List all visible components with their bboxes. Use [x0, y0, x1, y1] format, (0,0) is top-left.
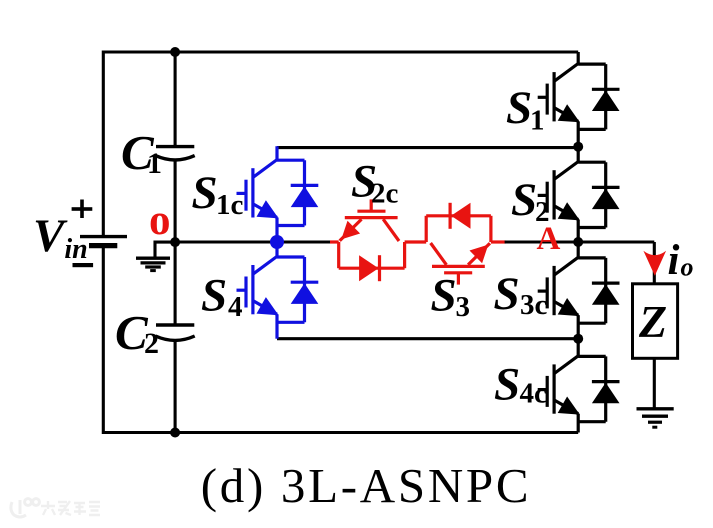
transistor S4c — [538, 356, 580, 415]
transistor S1 top connection wire — [577, 52, 580, 64]
svg-text:i: i — [668, 237, 680, 284]
transistor S2 antiparallel diode — [578, 162, 619, 227]
transistor S3 — [431, 243, 490, 285]
wire: Z to ground — [653, 358, 656, 409]
wire: clamp bottom rail (S4 to S3c-S4c junction) — [277, 337, 578, 340]
svg-text:S: S — [192, 167, 218, 219]
transistor S2c — [340, 199, 399, 241]
wire: C1 branch upper — [174, 52, 177, 147]
transistor S2 bottom connection wire — [577, 220, 580, 243]
svg-text:1: 1 — [147, 147, 162, 180]
wire: S2c to S3 — [405, 240, 427, 243]
wire: C2 to bottom rail — [174, 340, 177, 432]
svg-text:o: o — [149, 197, 171, 244]
svg-text:o: o — [681, 253, 694, 282]
S3 antiparallel diode — [426, 203, 491, 242]
svg-text:S: S — [511, 174, 537, 226]
svg-text:S: S — [494, 359, 520, 411]
svg-text:4: 4 — [228, 291, 243, 323]
svg-text:S: S — [431, 270, 457, 322]
wire: clamp top rail (S1c to S1-S2 junction) — [277, 146, 578, 149]
wire: node o to C2 — [174, 242, 177, 325]
transistor S1c antiparallel diode — [277, 160, 318, 225]
svg-text:1c: 1c — [216, 189, 244, 221]
battery Vin positive plate — [80, 235, 127, 238]
watermark logo — [11, 499, 40, 517]
node: S1-S2 junction — [573, 142, 583, 152]
transistor S4c top connection wire — [577, 339, 580, 357]
transistor S1 — [538, 64, 580, 123]
transistor S4 bottom connection wire — [275, 314, 278, 338]
svg-text:A: A — [537, 221, 561, 257]
transistor S4 antiparallel diode — [277, 257, 318, 322]
transistor S4c bottom connection wire — [577, 414, 580, 433]
svg-text:(d) 3L-ASNPC: (d) 3L-ASNPC — [201, 458, 532, 513]
svg-text:3: 3 — [456, 291, 471, 323]
svg-text:S: S — [201, 270, 227, 322]
node: S3c-S4c junction — [573, 334, 583, 344]
svg-text:3c: 3c — [520, 289, 548, 321]
node o junction — [170, 237, 180, 247]
wire: left rail lower — [102, 246, 105, 434]
svg-text:4c: 4c — [520, 378, 548, 410]
svg-text:Z: Z — [638, 296, 667, 347]
transistor S4 — [237, 256, 279, 315]
wire: middle rail from node o to S2c — [175, 240, 331, 243]
wire: C1 to node o — [174, 160, 177, 242]
battery Vin negative plate — [89, 243, 117, 248]
wire: red stub left of S2c — [330, 240, 339, 243]
S2c antiparallel diode — [339, 242, 405, 281]
transistor S3c top connection wire — [577, 242, 580, 258]
node: bottom rail / C2 junction — [170, 428, 180, 438]
transistor S3c bottom connection wire — [577, 315, 580, 339]
transistor S3c — [538, 257, 580, 316]
node: clamp midpoint junction — [270, 235, 284, 249]
wire: left rail upper — [102, 51, 105, 237]
wire: neutral ground stub — [155, 242, 175, 258]
transistor S1c top connection wire — [275, 146, 278, 160]
wire: node A to load — [578, 240, 654, 243]
transistor S2 top connection wire — [577, 147, 580, 163]
load Z box — [633, 284, 678, 359]
arrow io (output current) — [643, 251, 666, 276]
ground symbol at node o — [136, 258, 170, 270]
transistor S1c — [237, 160, 279, 219]
label Vin plus sign — [72, 200, 93, 219]
wire: load branch vertical — [653, 242, 656, 284]
transistor S1c bottom connection wire — [275, 218, 278, 243]
ground symbol at load — [637, 409, 674, 427]
svg-text:S: S — [506, 82, 532, 134]
node: top rail / C1 junction — [170, 47, 180, 57]
transistor S3c antiparallel diode — [578, 258, 619, 323]
node A junction — [573, 237, 583, 247]
transistor S2 — [538, 162, 580, 221]
svg-text:2: 2 — [144, 327, 159, 360]
label Vin minus sign — [73, 263, 94, 267]
transistor S4 top connection wire — [275, 242, 278, 257]
capacitor C1 — [156, 147, 195, 160]
wire: bottom rail — [103, 431, 578, 434]
transistor S1 antiparallel diode — [578, 64, 619, 129]
wire: S3 to node A — [505, 240, 579, 243]
svg-text:S: S — [494, 268, 520, 320]
watermark text — [41, 501, 100, 515]
wire: top rail — [103, 50, 578, 53]
svg-text:1: 1 — [530, 104, 545, 136]
transistor S4c antiparallel diode — [578, 356, 619, 421]
wire: red stub right of S3 — [491, 240, 506, 243]
capacitor C2 — [156, 325, 195, 340]
transistor S1 bottom connection wire — [577, 121, 580, 146]
svg-text:2c: 2c — [371, 178, 399, 210]
